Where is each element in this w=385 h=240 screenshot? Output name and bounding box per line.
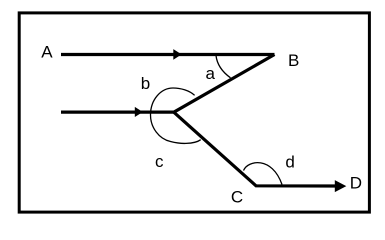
svg-text:D: D: [350, 174, 362, 193]
svg-text:c: c: [155, 152, 164, 171]
svg-text:C: C: [231, 188, 243, 207]
svg-text:d: d: [285, 152, 294, 171]
svg-text:A: A: [41, 43, 53, 62]
svg-text:b: b: [141, 74, 150, 93]
svg-text:a: a: [206, 64, 216, 83]
svg-text:B: B: [288, 51, 299, 70]
